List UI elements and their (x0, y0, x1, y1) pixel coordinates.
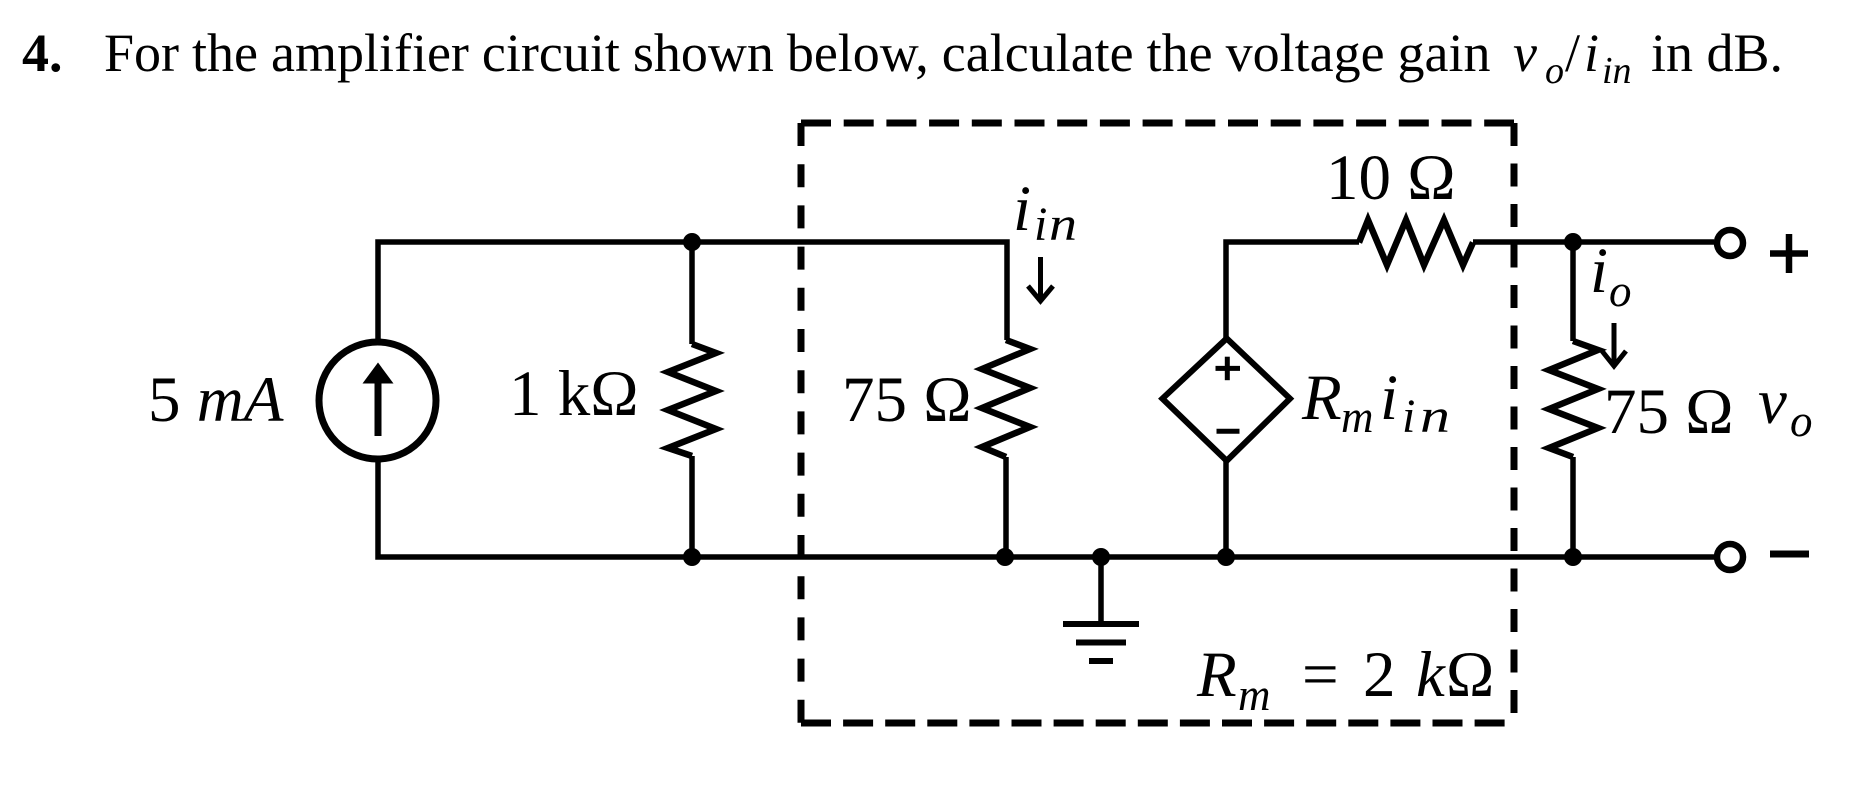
svg-text:o: o (1609, 266, 1632, 316)
svg-text:i: i (1584, 23, 1599, 83)
svg-text:75 Ω: 75 Ω (842, 364, 972, 436)
svg-text:n: n (1420, 390, 1450, 443)
svg-text:m: m (1238, 670, 1271, 720)
svg-text:k: k (1416, 639, 1446, 711)
svg-text:v: v (1513, 23, 1537, 83)
svg-text:i: i (1013, 173, 1031, 245)
svg-text:4.: 4. (22, 23, 63, 83)
svg-text:1 kΩ: 1 kΩ (509, 358, 639, 430)
svg-text:in: in (1602, 50, 1632, 92)
svg-text:/: / (1565, 23, 1580, 83)
svg-text:=: = (1302, 639, 1339, 711)
svg-text:v: v (1758, 366, 1787, 438)
svg-text:i: i (1034, 198, 1047, 251)
svg-text:10 Ω: 10 Ω (1326, 142, 1456, 214)
svg-text:o: o (1790, 396, 1813, 446)
svg-text:i: i (1402, 390, 1415, 443)
svg-text:Ω: Ω (1446, 639, 1494, 711)
svg-text:For the amplifier circuit show: For the amplifier circuit shown below, c… (104, 23, 1491, 83)
svg-text:i: i (1590, 235, 1608, 307)
svg-text:m: m (1341, 392, 1374, 442)
svg-text:2: 2 (1363, 639, 1396, 711)
svg-text:5 mA: 5 mA (148, 364, 284, 436)
svg-text:o: o (1545, 50, 1564, 92)
svg-text:R: R (1301, 362, 1342, 434)
svg-text:75 Ω: 75 Ω (1604, 376, 1734, 448)
svg-text:R: R (1196, 639, 1237, 711)
svg-text:in dB.: in dB. (1651, 23, 1783, 83)
svg-text:i: i (1380, 362, 1398, 434)
svg-text:n: n (1049, 198, 1077, 251)
